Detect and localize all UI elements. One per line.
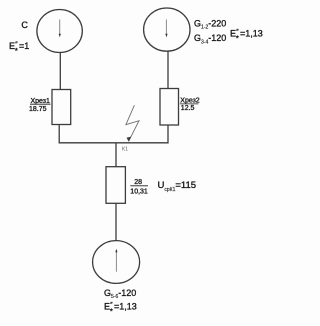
svg-text:E″*=1,13: E″*=1,13 (104, 301, 137, 315)
svg-text:К1: К1 (122, 146, 128, 152)
svg-text:G1-2-220: G1-2-220 (194, 18, 226, 30)
svg-text:12.5: 12.5 (181, 105, 195, 112)
svg-text:28: 28 (134, 179, 142, 186)
svg-text:18.75: 18.75 (29, 106, 47, 113)
svg-text:G3-4-120: G3-4-120 (194, 33, 226, 45)
svg-text:G5-6-120: G5-6-120 (104, 288, 136, 300)
svg-text:E″*=1,13: E″*=1,13 (230, 28, 263, 42)
svg-text:E″*=1: E″*=1 (9, 41, 29, 55)
svg-text:Хрез2: Хрез2 (180, 97, 200, 104)
svg-text:UсрК1=115: UсрК1=115 (158, 180, 197, 193)
svg-text:10,31: 10,31 (130, 188, 148, 195)
svg-text:C: C (21, 20, 28, 30)
